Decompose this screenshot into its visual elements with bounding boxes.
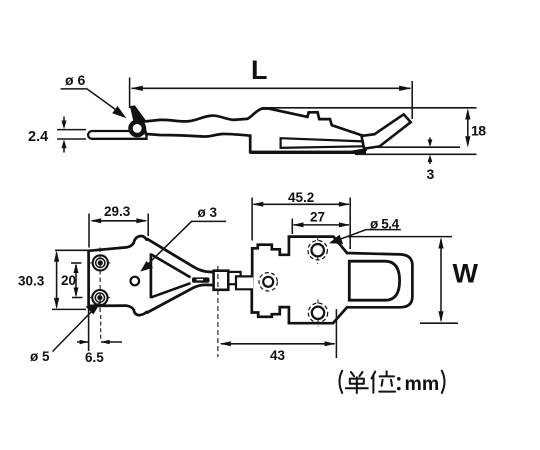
plate hole top (o5 counterbored)	[93, 255, 108, 270]
svg-text:ø 5: ø 5	[30, 349, 50, 364]
dimension W	[348, 236, 452, 238]
svg-text:30.3: 30.3	[18, 274, 45, 289]
svg-text:ø 6: ø 6	[65, 72, 85, 88]
dimension L: left extension line	[129, 78, 131, 109]
dimension 2.4: arrows	[63, 117, 65, 153]
wire: 3 top reference line	[352, 146, 460, 148]
svg-text:18: 18	[471, 122, 486, 138]
plate holes centerline (vertical dashed)	[99, 248, 101, 316]
wire: 3 bottom reference line	[355, 153, 477, 155]
kanji I	[372, 371, 396, 393]
lever body (side view profile)	[143, 108, 366, 152]
svg-text:45.2: 45.2	[288, 190, 314, 205]
lever bottom flange (thick line)	[250, 151, 366, 154]
dimension 30.3	[55, 249, 88, 251]
svg-text:43: 43	[270, 348, 286, 363]
bail wire top run (inner edge)	[152, 255, 191, 278]
lever front bent tip strip (solid)	[130, 105, 147, 124]
dimension 43	[217, 266, 219, 357]
dimension 6.5	[88, 308, 90, 351]
svg-text:mm: mm	[405, 373, 440, 395]
svg-text:3: 3	[427, 166, 435, 182]
tongue lower strip	[236, 276, 253, 289]
unit note (tan-i : mm)	[340, 371, 399, 393]
bail stem end cap	[214, 272, 219, 285]
svg-text:6.5: 6.5	[85, 350, 104, 365]
small hole o3	[131, 277, 140, 286]
tongue upper strip	[228, 272, 240, 284]
kanji TAN	[346, 372, 368, 393]
svg-text:2.4: 2.4	[28, 129, 48, 145]
svg-text:27: 27	[310, 210, 325, 225]
leader for o6 with arrowhead	[61, 89, 122, 114]
pivot loop ring (o6)	[131, 122, 144, 135]
bail wire bottom run (inner edge)	[152, 283, 191, 297]
lever plate (top view)	[252, 237, 413, 324]
svg-text:20: 20	[61, 273, 76, 288]
svg-text:29.3: 29.3	[104, 204, 131, 219]
screw hole bottom (o5.4, dashed head circle)	[312, 307, 324, 319]
hook plate (side view flat bar)	[88, 131, 146, 139]
svg-text:ø 3: ø 3	[198, 205, 218, 220]
dimension 2.4: reference lines	[57, 130, 86, 139]
spring leaf (flat spring under lever)	[281, 138, 369, 148]
screw hole centerline ticks	[317, 237, 319, 327]
dimension 3: arrows	[429, 138, 431, 165]
dimension 20	[71, 262, 82, 264]
paren left	[340, 371, 343, 393]
svg-text:W: W	[453, 259, 479, 289]
handle cutout (D slot)	[349, 261, 399, 300]
svg-text:L: L	[251, 55, 268, 85]
dimension 18: double arrow	[467, 111, 469, 145]
handle (bent tip, side view)	[362, 114, 411, 148]
link (wire loop end)	[214, 271, 229, 290]
hook plate (top view) with rolled ears	[89, 236, 151, 315]
bail stem seam (doubled wire)	[192, 277, 210, 282]
plate hole bottom (o5 counterbored)	[92, 290, 107, 305]
wire: 18 top reference line (tangent to lever peak)	[262, 107, 477, 109]
bail wire top run (outer edge)	[147, 239, 214, 273]
pivot hole (dashed circle)	[263, 277, 273, 287]
dimension L: right extension line	[411, 81, 413, 119]
plate hole cross ticks	[90, 263, 111, 298]
dimension L: line with arrows	[132, 87, 411, 89]
screw hole top (o5.4, dashed head circle)	[312, 244, 324, 256]
bail wire bottom run (outer edge)	[147, 285, 214, 313]
tab gaps (white)	[145, 241, 153, 253]
colon	[397, 379, 401, 389]
